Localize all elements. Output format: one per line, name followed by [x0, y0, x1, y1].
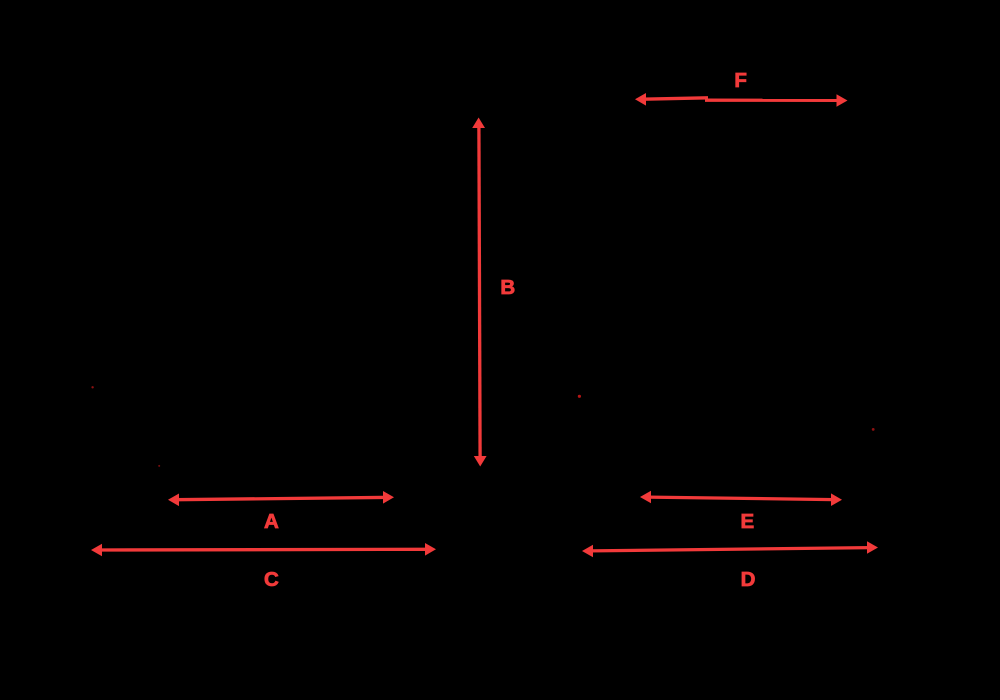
- dimension arrow A: [168, 491, 394, 506]
- dimension arrow E: [640, 491, 842, 506]
- stray red speck 3: [578, 395, 581, 398]
- stray red speck 1: [91, 386, 93, 388]
- stray red speck 2: [158, 465, 160, 467]
- dimension arrow F (top right horizontal): [635, 93, 848, 107]
- svg-text:E: E: [741, 510, 755, 533]
- svg-text:C: C: [264, 568, 279, 591]
- svg-text:B: B: [500, 276, 515, 299]
- stray red speck 4: [872, 428, 875, 431]
- svg-text:F: F: [734, 69, 747, 92]
- dimension arrow D: [582, 541, 878, 557]
- svg-text:A: A: [264, 510, 279, 533]
- dimension arrow C: [91, 543, 436, 556]
- dimension arrow B (vertical center): [472, 118, 486, 467]
- svg-text:D: D: [741, 568, 756, 591]
